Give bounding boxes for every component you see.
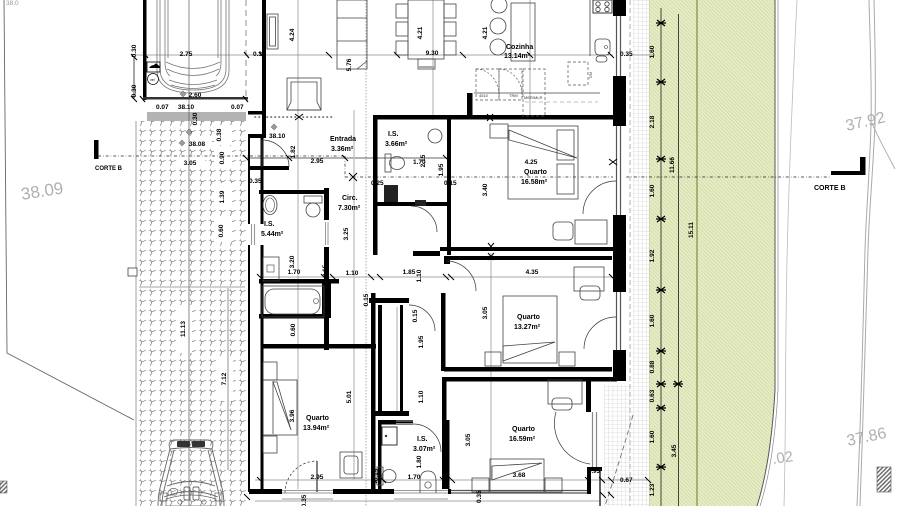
svg-text:3.66m²: 3.66m² <box>385 141 408 148</box>
svg-text:2.75: 2.75 <box>180 51 193 58</box>
svg-text:0.15: 0.15 <box>373 468 380 481</box>
svg-text:1.82: 1.82 <box>290 145 297 158</box>
svg-text:3.05: 3.05 <box>465 433 472 446</box>
svg-text:3.05: 3.05 <box>184 160 197 167</box>
svg-text:0.07: 0.07 <box>231 104 244 111</box>
svg-text:3.05: 3.05 <box>482 306 489 319</box>
svg-text:TRM: TRM <box>509 93 518 98</box>
svg-text:Circ.: Circ. <box>342 195 358 202</box>
svg-text:16.58m²: 16.58m² <box>521 179 548 186</box>
svg-text:1.92: 1.92 <box>649 249 656 262</box>
svg-text:0.15: 0.15 <box>363 293 370 306</box>
svg-text:1.39: 1.39 <box>219 190 226 203</box>
svg-text:1.60: 1.60 <box>649 45 656 58</box>
svg-text:1.70: 1.70 <box>408 474 421 481</box>
svg-text:1.60: 1.60 <box>649 430 656 443</box>
svg-text:I.S.: I.S. <box>417 436 428 443</box>
svg-text:0.95: 0.95 <box>588 469 600 475</box>
svg-text:1.85: 1.85 <box>403 269 416 276</box>
svg-text:1.70: 1.70 <box>288 269 301 276</box>
svg-text:5.01: 5.01 <box>346 390 353 403</box>
svg-text:.02: .02 <box>771 448 794 468</box>
svg-text:3.68: 3.68 <box>513 472 526 479</box>
svg-text:0.88: 0.88 <box>649 360 656 373</box>
svg-text:Cozinha: Cozinha <box>506 44 533 51</box>
svg-text:4.25: 4.25 <box>525 159 538 166</box>
svg-text:7.12: 7.12 <box>221 372 228 385</box>
svg-text:vel: vel <box>150 78 155 82</box>
svg-text:0.35: 0.35 <box>620 51 633 58</box>
svg-text:0.30: 0.30 <box>131 84 138 97</box>
svg-text:4.24: 4.24 <box>289 28 296 41</box>
svg-text:0.15: 0.15 <box>444 180 457 187</box>
svg-text:3.36m²: 3.36m² <box>331 146 354 153</box>
svg-text:15.11: 15.11 <box>688 222 695 238</box>
svg-text:3.45: 3.45 <box>671 444 678 457</box>
svg-text:Quarto: Quarto <box>517 314 540 321</box>
svg-text:5.44m²: 5.44m² <box>261 231 284 238</box>
svg-text:I.S.: I.S. <box>388 131 399 138</box>
svg-text:0.90: 0.90 <box>219 151 226 164</box>
svg-text:1.95: 1.95 <box>438 163 445 176</box>
svg-text:4510: 4510 <box>479 93 489 98</box>
svg-text:0.35: 0.35 <box>253 51 266 58</box>
svg-text:4.21: 4.21 <box>417 26 424 39</box>
svg-text:11.13: 11.13 <box>180 321 187 337</box>
svg-text:0.35: 0.35 <box>301 494 308 506</box>
svg-text:2.60: 2.60 <box>189 92 202 99</box>
svg-text:0.15: 0.15 <box>322 264 329 277</box>
svg-text:Entrada: Entrada <box>330 136 356 143</box>
svg-text:0.15: 0.15 <box>412 309 419 322</box>
svg-text:2.95: 2.95 <box>311 474 324 481</box>
svg-text:3.25: 3.25 <box>343 227 350 240</box>
svg-text:0.60: 0.60 <box>290 323 297 336</box>
svg-text:I.S.: I.S. <box>264 221 275 228</box>
svg-text:1.60: 1.60 <box>649 184 656 197</box>
svg-text:13.14m²: 13.14m² <box>504 53 531 60</box>
svg-text:2.15: 2.15 <box>420 154 427 167</box>
svg-text:0.25: 0.25 <box>371 180 384 187</box>
svg-text:11.66: 11.66 <box>669 157 676 173</box>
svg-text:1.10: 1.10 <box>416 269 423 282</box>
svg-text:4.35: 4.35 <box>526 269 539 276</box>
svg-text:0.67: 0.67 <box>620 477 633 484</box>
svg-text:CORTE B: CORTE B <box>814 185 846 192</box>
svg-text:1.80: 1.80 <box>416 455 423 468</box>
svg-text:2.18: 2.18 <box>649 115 656 128</box>
svg-text:0.35: 0.35 <box>476 490 483 503</box>
svg-text:0.63: 0.63 <box>649 389 656 402</box>
svg-text:T/M: T/M <box>588 72 593 79</box>
svg-text:13.94m²: 13.94m² <box>303 425 330 432</box>
svg-text:0.38: 0.38 <box>216 128 223 141</box>
svg-text:Quarto: Quarto <box>512 426 535 433</box>
svg-text:5.76: 5.76 <box>346 58 353 71</box>
svg-text:2.95: 2.95 <box>311 158 324 165</box>
svg-text:3.20: 3.20 <box>289 255 296 268</box>
svg-text:0.07: 0.07 <box>156 104 169 111</box>
svg-text:38.0: 38.0 <box>6 0 19 7</box>
svg-text:1.23: 1.23 <box>649 483 656 496</box>
svg-text:Quarto: Quarto <box>306 415 329 422</box>
svg-text:1.95: 1.95 <box>418 335 425 348</box>
svg-text:1.10: 1.10 <box>418 390 425 403</box>
svg-text:CORTE B: CORTE B <box>95 166 123 172</box>
svg-text:Quarto: Quarto <box>524 169 547 176</box>
svg-text:38.10: 38.10 <box>269 133 286 140</box>
svg-text:38.10: 38.10 <box>178 104 195 111</box>
svg-text:7.30m²: 7.30m² <box>338 205 361 212</box>
svg-text:0.30: 0.30 <box>192 112 199 125</box>
svg-text:0.30: 0.30 <box>131 44 138 57</box>
svg-text:3.96: 3.96 <box>289 409 296 422</box>
svg-text:0.60: 0.60 <box>218 224 225 237</box>
svg-text:0.15: 0.15 <box>442 468 449 481</box>
svg-text:1.60: 1.60 <box>649 314 656 327</box>
svg-text:9.30: 9.30 <box>426 50 439 57</box>
svg-text:3.40: 3.40 <box>482 183 489 196</box>
svg-text:MER/MLR: MER/MLR <box>524 95 543 100</box>
svg-text:1.10: 1.10 <box>346 270 359 277</box>
svg-text:38.08: 38.08 <box>189 141 206 148</box>
svg-text:0.35: 0.35 <box>249 178 262 185</box>
svg-text:13.27m²: 13.27m² <box>514 324 541 331</box>
svg-text:16.59m²: 16.59m² <box>509 436 536 443</box>
svg-text:3.07m²: 3.07m² <box>413 446 436 453</box>
svg-text:4.21: 4.21 <box>482 26 489 39</box>
